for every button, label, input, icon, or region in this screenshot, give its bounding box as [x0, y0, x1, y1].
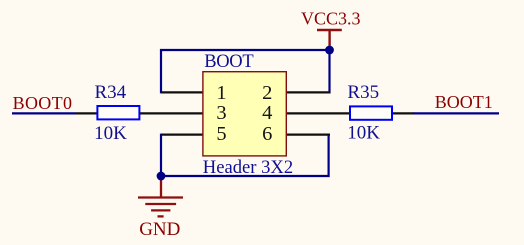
svg-text:VCC3.3: VCC3.3: [301, 9, 361, 29]
svg-text:Header 3X2: Header 3X2: [203, 157, 293, 178]
svg-text:BOOT1: BOOT1: [435, 92, 493, 112]
svg-text:BOOT: BOOT: [204, 52, 253, 72]
svg-text:10K: 10K: [347, 122, 380, 143]
svg-text:10K: 10K: [94, 123, 127, 144]
svg-text:5: 5: [216, 123, 226, 145]
svg-text:GND: GND: [139, 219, 180, 240]
svg-text:R35: R35: [347, 82, 379, 103]
svg-text:6: 6: [262, 123, 272, 145]
svg-text:R34: R34: [95, 82, 127, 103]
svg-text:1: 1: [216, 82, 226, 104]
svg-text:BOOT0: BOOT0: [13, 93, 73, 113]
svg-text:4: 4: [262, 102, 272, 124]
svg-text:3: 3: [216, 102, 226, 124]
svg-text:2: 2: [262, 82, 272, 104]
